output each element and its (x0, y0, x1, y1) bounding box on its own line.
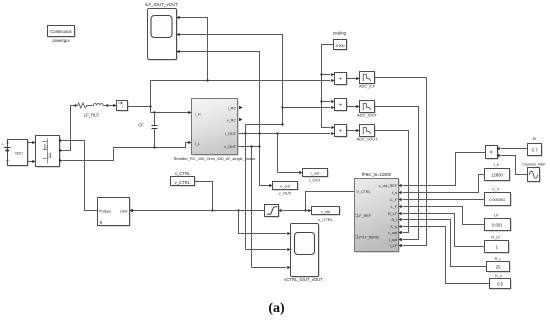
svg-text:L_F: L_F (391, 205, 398, 209)
svg-text:i_L: i_L (195, 142, 200, 146)
svg-text:R_LF: R_LF (491, 236, 501, 240)
svg-text:LF: LF (494, 214, 499, 218)
svg-text:vCTRL_iOUT_vOUT: vCTRL_iOUT_vOUT (284, 277, 323, 282)
svg-text:0.000051: 0.000051 (489, 198, 505, 202)
svg-text:M: M (533, 137, 536, 141)
svg-text:C_F: C_F (492, 187, 500, 191)
svg-text:(a): (a) (268, 301, 285, 315)
svg-text:i_RC: i_RC (228, 106, 237, 110)
svg-text:v_CTRL: v_CTRL (175, 171, 191, 176)
svg-text:i_OUT: i_OUT (309, 178, 321, 183)
svg-text:ADC_vOUT: ADC_vOUT (356, 136, 378, 141)
svg-text:v_ctrl: v_ctrl (321, 209, 331, 214)
svg-text:v_out: v_out (388, 231, 397, 235)
svg-text:0.7: 0.7 (532, 148, 538, 153)
svg-text:1/300: 1/300 (335, 44, 344, 48)
svg-text:12800: 12800 (491, 173, 503, 178)
svg-text:v_CTRL: v_CTRL (318, 217, 333, 222)
svg-text:f_s: f_s (493, 163, 498, 167)
svg-text:Continuous: Continuous (50, 29, 71, 34)
svg-text:R_l: R_l (495, 257, 501, 261)
svg-text:i_LF: i_LF (390, 244, 398, 248)
svg-text:f_s: f_s (392, 191, 397, 195)
svg-text:i_OUT: i_OUT (225, 132, 237, 136)
svg-text:Cosinus_REF: Cosinus_REF (522, 163, 546, 167)
svg-text:R_l: R_l (391, 218, 397, 222)
svg-text:25: 25 (496, 264, 501, 269)
svg-text:Pulses: Pulses (99, 209, 111, 214)
svg-text:v_OUT: v_OUT (279, 191, 292, 196)
svg-text:v_OUT: v_OUT (224, 145, 236, 149)
svg-text:iLF*iLF_REF/ib: iLF*iLF_REF/ib (357, 235, 380, 239)
svg-text:Uref: Uref (120, 209, 128, 214)
svg-text:CF: CF (138, 123, 144, 128)
svg-text:v_RC: v_RC (227, 119, 237, 123)
svg-text:K_s: K_s (391, 225, 398, 229)
svg-text:powergui: powergui (53, 38, 70, 43)
svg-text:v_out: v_out (280, 184, 291, 189)
svg-text:fPBC_ts=12800: fPBC_ts=12800 (362, 172, 392, 177)
svg-text:v_out_REF: v_out_REF (379, 184, 398, 188)
svg-text:R_LF: R_LF (388, 212, 398, 216)
svg-text:C_F: C_F (390, 198, 398, 202)
svg-text:+: + (2, 143, 4, 147)
svg-text:iLF_REF: iLF_REF (357, 214, 372, 218)
svg-text:ADC_iOUT: ADC_iOUT (357, 112, 378, 117)
svg-text:iLF_iOUT_vOUT: iLF_iOUT_vOUT (145, 2, 178, 7)
svg-text:V_CTRL: V_CTRL (357, 190, 371, 194)
svg-text:0.001: 0.001 (492, 223, 503, 228)
svg-text:i_out: i_out (389, 238, 397, 242)
svg-text:Rectifier_RC_100_Ohm_430_uF_si: Rectifier_RC_100_Ohm_430_uF_single_phase (174, 156, 256, 161)
svg-text:i_H: i_H (195, 113, 201, 117)
svg-text:i_out: i_out (311, 171, 321, 176)
svg-text:0.5: 0.5 (497, 282, 503, 287)
svg-text:ADC_iLF: ADC_iLF (359, 84, 376, 89)
svg-text:i: i (122, 104, 123, 109)
svg-text:LF_RLF: LF_RLF (84, 112, 100, 117)
svg-text:v_CTRL: v_CTRL (175, 180, 191, 185)
svg-text:scaling: scaling (333, 31, 347, 36)
svg-text:VDC: VDC (15, 150, 24, 155)
svg-text:K_v: K_v (495, 274, 502, 278)
